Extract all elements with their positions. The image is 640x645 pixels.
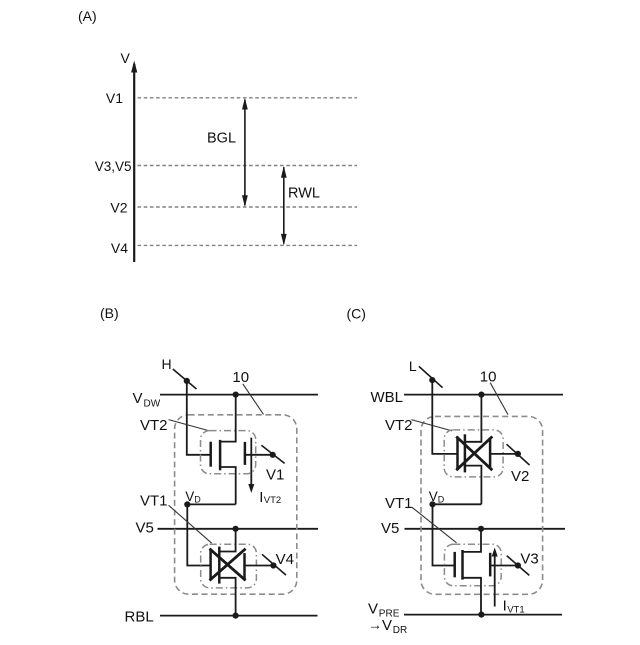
current arrow IVT1 [494,554,496,607]
svg-text:BGL: BGL [207,131,236,147]
leader VT1 [169,505,212,543]
leader VT2 [169,420,209,431]
svg-text:I: I [259,489,263,506]
svg-text:L: L [409,358,417,374]
transistor VT1 inner box [444,544,501,586]
slash V4 [262,554,286,575]
svg-text:V5: V5 [136,520,154,537]
svg-text:VT1: VT1 [140,493,168,510]
transistor VT2 source tap [220,467,236,504]
node V4 dot [270,562,276,568]
cell outline 10 (dashed box) [175,415,297,594]
wire back gate to V4 [245,565,274,567]
transistor VT1 gate bar [209,549,212,581]
wire back gate to V1 [245,454,273,456]
leader 10 [243,384,264,415]
transistor VT2 back gate bar [489,439,492,469]
node WBL junction dot [478,392,484,398]
svg-text:V5: V5 [381,520,399,537]
level line V1 [138,97,358,99]
svg-text:→: → [368,617,382,633]
transistor VT2 source tap [465,466,482,505]
svg-text:V4: V4 [276,551,294,568]
wire VD [433,503,482,505]
transistor VT2 gate bar [209,442,212,467]
wire V5 bus [405,528,566,530]
svg-text:VT1: VT1 [507,605,524,616]
svg-text:(B): (B) [100,305,119,321]
transistor VT1 gate bar [453,552,456,577]
level line V4 [138,244,358,246]
current arrow IVT2 [250,438,252,487]
voltage axis [133,64,135,262]
transistor VT1 channel bar [461,550,464,580]
cross X over VT1 [210,549,246,581]
svg-text:V1: V1 [266,466,284,483]
svg-text:V: V [368,601,378,618]
svg-text:VT2: VT2 [385,417,413,434]
svg-text:RBL: RBL [125,609,154,626]
svg-text:10: 10 [480,368,497,385]
transistor VT1 drain tap [219,529,235,552]
svg-text:V: V [121,50,131,66]
svg-text:VT1: VT1 [385,495,413,512]
leader VT2 [411,420,452,431]
transistor VT1 back gate bar [243,553,246,579]
node VDW junction dot [233,392,239,398]
svg-text:V3: V3 [520,551,538,568]
transistor VT2 back gate bar [244,442,247,465]
svg-text:D: D [194,494,201,504]
node VPRE junction dot [478,612,484,618]
wire RBL bus [160,615,318,617]
RWL double arrow [283,167,285,243]
slash V2 [507,444,530,465]
transistor VT1 drain tap [463,529,482,552]
transistor VT2 gate bar [456,437,459,471]
wire VDW bus [160,394,318,396]
transistor VT1 back gate bar [489,553,492,577]
svg-text:V4: V4 [111,240,128,256]
svg-text:D: D [438,494,445,504]
transistor VT1 inner box [201,544,257,588]
svg-text:V2: V2 [110,200,127,216]
slash V1 [261,445,284,463]
transistor VT2 drain tap [220,395,236,442]
transistor VT1 source tap [219,578,235,616]
wire H to gate [187,381,211,455]
level line V3,V5 [138,165,358,167]
leader 10 [490,383,508,415]
node V5 junction dot [233,526,239,532]
svg-text:V1: V1 [106,90,123,106]
wire WBL bus [404,394,563,396]
transistor VT1 channel bar [218,547,221,584]
wire VD to VT1 gate [187,504,211,565]
svg-text:DR: DR [393,625,407,636]
svg-text:V2: V2 [511,468,529,485]
svg-text:VT2: VT2 [264,495,281,506]
transistor VT2 drain tap [465,395,482,442]
transistor VT2 inner box [444,430,503,477]
slash L [419,366,443,387]
svg-text:WBL: WBL [371,389,404,406]
cross X over VT2 [456,437,492,471]
slash H [173,369,197,389]
svg-text:V3,V5: V3,V5 [95,159,132,174]
wire VPRE bus [404,614,562,616]
wire back gate to V2 [490,453,518,455]
svg-text:H: H [162,356,172,372]
node VD dot [429,501,435,507]
wire V5 bus [158,528,319,530]
wire L to gate [432,380,458,454]
transistor VT2 inner box [201,431,256,474]
svg-text:RWL: RWL [288,186,320,202]
transistor VT2 channel bar [219,440,222,470]
BGL double arrow [244,100,246,206]
node V1 dot [270,452,276,458]
svg-text:(C): (C) [347,306,366,322]
wire back gate to V3 [490,565,518,567]
wire VD to VT1 gate [433,504,456,565]
svg-text:(A): (A) [78,8,97,24]
svg-text:VT2: VT2 [140,417,168,434]
node V5 junction dot [478,526,484,532]
svg-text:I: I [503,598,507,615]
cell outline 10 (dashed box) [421,416,543,594]
node V2 dot [515,451,521,457]
leader VT1 [412,507,457,543]
svg-text:DW: DW [144,399,161,410]
node V3 dot [515,562,521,568]
svg-text:V: V [382,617,392,634]
node RBL junction dot [233,613,239,619]
wire VD [187,503,235,505]
node L dot [429,377,435,383]
transistor VT2 channel bar [464,434,467,472]
svg-text:V: V [133,390,143,407]
transistor VT1 source tap [463,578,482,615]
level line V2 [138,206,358,208]
node VD dot [184,501,190,507]
svg-text:10: 10 [232,369,249,386]
slash V3 [507,556,530,576]
node H dot [184,378,190,384]
